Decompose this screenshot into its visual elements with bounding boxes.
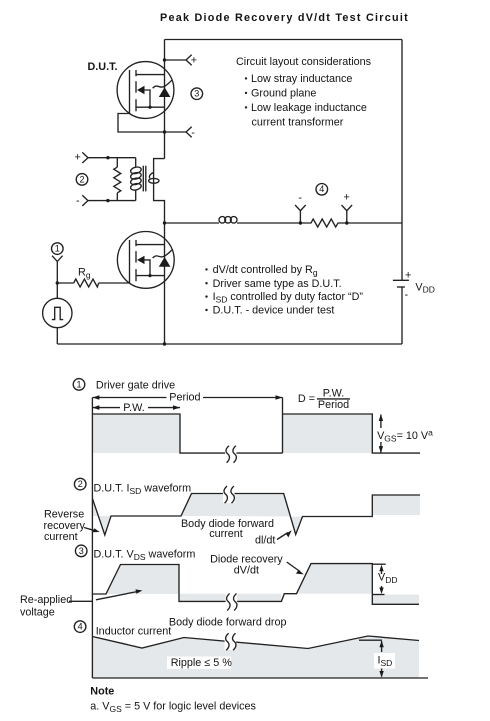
svg-text:current transformer: current transformer [252, 117, 344, 129]
svg-text:dV/dt controlled by Rg: dV/dt controlled by Rg [213, 264, 318, 278]
svg-text:4: 4 [78, 622, 83, 632]
wf3 gray pulse 1 [106, 565, 179, 595]
svg-text:-: - [298, 192, 302, 204]
probe 2 minus [76, 195, 88, 207]
resistor R burden [114, 158, 121, 201]
wf3 gray low strip 2 [372, 595, 419, 605]
svg-text:current: current [44, 531, 78, 543]
svg-text:D.U.T. - device under test: D.U.T. - device under test [213, 305, 335, 317]
node dot transformer top [106, 156, 109, 159]
svg-text:3: 3 [79, 546, 84, 556]
svg-text:+: + [75, 152, 81, 164]
circuit notes text [205, 264, 363, 317]
kelvin probe - [165, 127, 196, 139]
wf2 gray body diode block [181, 494, 303, 535]
label body diode forward current [181, 518, 274, 540]
svg-text:Re-applied: Re-applied [20, 594, 72, 606]
wf3 gray low strip 1 [179, 594, 281, 602]
resistor R sense [302, 219, 345, 227]
kelvin probe + [165, 55, 198, 67]
wf1 trace [92, 398, 420, 454]
svg-text:current: current [209, 528, 243, 540]
svg-text:3: 3 [194, 89, 199, 99]
svg-text:VDD: VDD [415, 281, 434, 294]
svg-text:recovery: recovery [44, 520, 86, 532]
svg-text:P.W.: P.W. [123, 402, 144, 414]
label diode recovery dvdt with arrow [210, 554, 304, 577]
svg-text:2: 2 [79, 174, 84, 184]
svg-text:Low leakage inductance: Low leakage inductance [251, 102, 367, 114]
wf2 break [223, 485, 235, 503]
svg-text:dV/dt: dV/dt [234, 565, 259, 577]
svg-text:2: 2 [78, 479, 83, 489]
svg-text:voltage: voltage [20, 607, 55, 619]
wf4 gray area [92, 636, 419, 678]
label dl/dt with arrow [255, 530, 292, 546]
pulse generator V1 [43, 298, 72, 344]
wire right vertical upper [401, 40, 403, 281]
transformer secondary jog wires [154, 159, 165, 344]
wf2 trace [92, 494, 420, 536]
dimension VDD [372, 564, 397, 594]
svg-text:dl/dt: dl/dt [255, 535, 275, 547]
svg-text:VGS= 10 Va: VGS= 10 Va [377, 428, 433, 444]
wf4 trace [92, 636, 419, 649]
svg-text:4: 4 [319, 184, 324, 194]
wire top rail [165, 39, 403, 41]
wf1 break [225, 445, 237, 463]
label re-applied voltage with arrow [20, 589, 142, 618]
D.U.T. body diode [153, 80, 172, 97]
label circled 4 [316, 184, 328, 196]
resistor Rg [57, 267, 129, 288]
wire mid rail [165, 222, 403, 224]
svg-text:ISD controlled by duty factor: ISD controlled by duty factor “D” [213, 291, 364, 305]
svg-text:Note: Note [90, 686, 114, 698]
circuit layout considerations text [236, 56, 372, 129]
svg-text:Low stray inductance: Low stray inductance [251, 73, 352, 85]
wf1 gray pulse 2 [283, 414, 373, 453]
probe 4 minus [295, 192, 306, 225]
svg-text:1: 1 [76, 379, 81, 389]
driver MOSFET Q2 [117, 232, 174, 289]
dimension Period [92, 392, 282, 404]
wire DUT gate-source tie [118, 114, 165, 133]
label reverse recovery current [44, 509, 100, 544]
svg-text:Rg: Rg [78, 267, 91, 281]
node dot transformer bottom [106, 199, 109, 202]
driver body diode [153, 250, 172, 267]
label circled 1 waveform [73, 379, 85, 391]
label circled 3 waveform [75, 545, 87, 557]
label circled 1 [52, 243, 64, 255]
waveform time axis vertical [91, 398, 93, 679]
label circled 4 waveform [74, 621, 86, 633]
svg-text:-: - [405, 289, 409, 301]
svg-text:+: + [344, 192, 350, 204]
svg-text:Body diode forward drop: Body diode forward drop [169, 617, 287, 629]
dimension ISD [359, 640, 395, 677]
svg-text:D.U.T. VDS waveform: D.U.T. VDS waveform [94, 549, 196, 563]
wf3 gray pulse 2 [297, 564, 373, 594]
node dot gate drive [56, 281, 59, 284]
label ripple [167, 657, 232, 670]
wire right vertical lower [401, 287, 403, 344]
node dot drain kelvin [163, 58, 166, 61]
label circled 2 waveform [74, 478, 86, 490]
wf2 gray reverse recovery V [92, 499, 111, 536]
dimension VGS [377, 414, 433, 453]
svg-text:VDD: VDD [378, 572, 397, 585]
svg-text:Driver same type as D.U.T.: Driver same type as D.U.T. [213, 278, 342, 290]
wf1 gray pulse 1 [92, 414, 180, 453]
svg-text:Driver gate drive: Driver gate drive [96, 380, 175, 392]
wf3 break [226, 593, 238, 611]
svg-text:-: - [76, 195, 80, 207]
svg-text:Ground plane: Ground plane [251, 88, 316, 100]
svg-text:D.U.T.: D.U.T. [88, 61, 118, 73]
wf3 trace [92, 564, 419, 605]
probe 2 plus [75, 152, 89, 164]
transformer T1 [88, 158, 159, 201]
probe 4 plus [342, 192, 353, 225]
svg-text:Period: Period [169, 392, 200, 404]
label circled 3 [191, 88, 203, 100]
wf2 gray right block [372, 495, 420, 515]
svg-text:Period: Period [318, 399, 349, 411]
label circled 2 [76, 174, 88, 186]
wf4 time axis [92, 677, 428, 679]
svg-text:1: 1 [55, 244, 60, 254]
inductor L1 [219, 217, 237, 224]
svg-text:P.W.: P.W. [323, 388, 344, 400]
dimension P.W. [92, 402, 180, 414]
svg-text:Reverse: Reverse [44, 509, 84, 521]
battery VDD [393, 270, 435, 302]
svg-text:a. VGS = 5 V for logic level d: a. VGS = 5 V for logic level devices [90, 701, 256, 715]
formula D equals PW over Period [298, 388, 350, 411]
svg-text:-: - [191, 127, 195, 139]
svg-text:Inductor current: Inductor current [96, 626, 172, 638]
svg-text:D =: D = [298, 393, 315, 405]
svg-text:D.U.T. ISD waveform: D.U.T. ISD waveform [94, 483, 192, 497]
D.U.T. MOSFET Q1 [117, 62, 174, 119]
node dot mid rail left [163, 221, 166, 224]
wire bottom rail [57, 343, 402, 345]
svg-text:Ripple ≤ 5 %: Ripple ≤ 5 % [171, 657, 233, 669]
svg-text:Circuit layout considerations: Circuit layout considerations [236, 56, 372, 68]
node dot bottom rail [163, 342, 166, 345]
svg-text:Peak Diode Recovery dV/dt Test: Peak Diode Recovery dV/dt Test Circuit [160, 12, 409, 24]
svg-text:+: + [191, 55, 197, 67]
node dot source kelvin [163, 130, 166, 133]
wf4 break [225, 633, 237, 651]
probe 1 [52, 256, 63, 299]
wire DUT drain/source vertical [164, 40, 166, 159]
svg-text:+: + [405, 270, 411, 282]
